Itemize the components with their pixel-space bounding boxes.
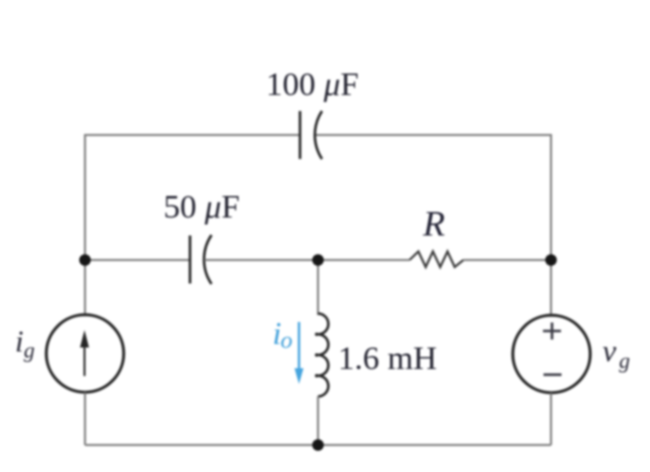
capacitor 100uF left plate xyxy=(299,111,302,159)
current source ig circle xyxy=(46,315,123,392)
svg-text:100 μF: 100 μF xyxy=(266,67,359,103)
wire left vertical: from top-left corner down to current source xyxy=(84,134,86,314)
svg-text:o: o xyxy=(281,328,293,354)
wire middle-1: left node to 50uF left plate xyxy=(85,259,190,261)
voltage source plus sign xyxy=(543,323,561,340)
inductor 1.6mH coil xyxy=(315,314,328,397)
wire below current source xyxy=(84,393,86,446)
svg-text:50 μF: 50 μF xyxy=(164,190,240,226)
capacitor 50uF left plate xyxy=(189,236,192,284)
node dot left (85,260) xyxy=(79,254,91,266)
wire below voltage source xyxy=(550,393,552,445)
node dot bottom (318,445) xyxy=(312,439,324,451)
wire middle-3: resistor to right node xyxy=(463,259,551,261)
node dot right (551,260) xyxy=(545,254,557,266)
svg-text:v: v xyxy=(603,333,617,368)
wire top-left: top rail from left corner to 100uF left plate xyxy=(85,134,300,136)
resistor R zigzag xyxy=(410,252,464,268)
wire top-right: top rail from 100uF right plate to right corner xyxy=(315,134,551,136)
label i_o (blue) xyxy=(273,315,293,354)
wire middle vertical upper: middle node down to inductor xyxy=(317,260,319,315)
current source ig arrow xyxy=(80,330,89,376)
voltage source vg circle xyxy=(513,315,590,392)
label i_g xyxy=(15,324,35,363)
svg-text:g: g xyxy=(619,348,630,373)
label v_g xyxy=(603,333,631,373)
wire middle-2: 50uF right plate to middle node and on to resistor xyxy=(205,259,410,261)
svg-text:g: g xyxy=(24,338,35,363)
wire middle vertical lower: inductor to bottom node xyxy=(317,396,319,445)
label R xyxy=(422,204,445,244)
label 100 uF value xyxy=(266,67,359,103)
capacitor 50uF right curved plate xyxy=(204,235,211,284)
wire right vertical: from top-right corner down to voltage source xyxy=(550,134,552,315)
current i_o arrow (blue) xyxy=(295,322,304,384)
wire bottom rail xyxy=(85,444,551,446)
node dot middle (318,260) xyxy=(312,254,324,266)
svg-text:i: i xyxy=(15,324,24,359)
label 1.6 mH value xyxy=(338,341,437,377)
svg-text:R: R xyxy=(422,204,445,244)
svg-text:1.6 mH: 1.6 mH xyxy=(338,341,437,377)
voltage source minus sign xyxy=(544,373,562,376)
label 50 uF value xyxy=(164,190,240,226)
capacitor 100uF right curved plate xyxy=(315,111,322,159)
